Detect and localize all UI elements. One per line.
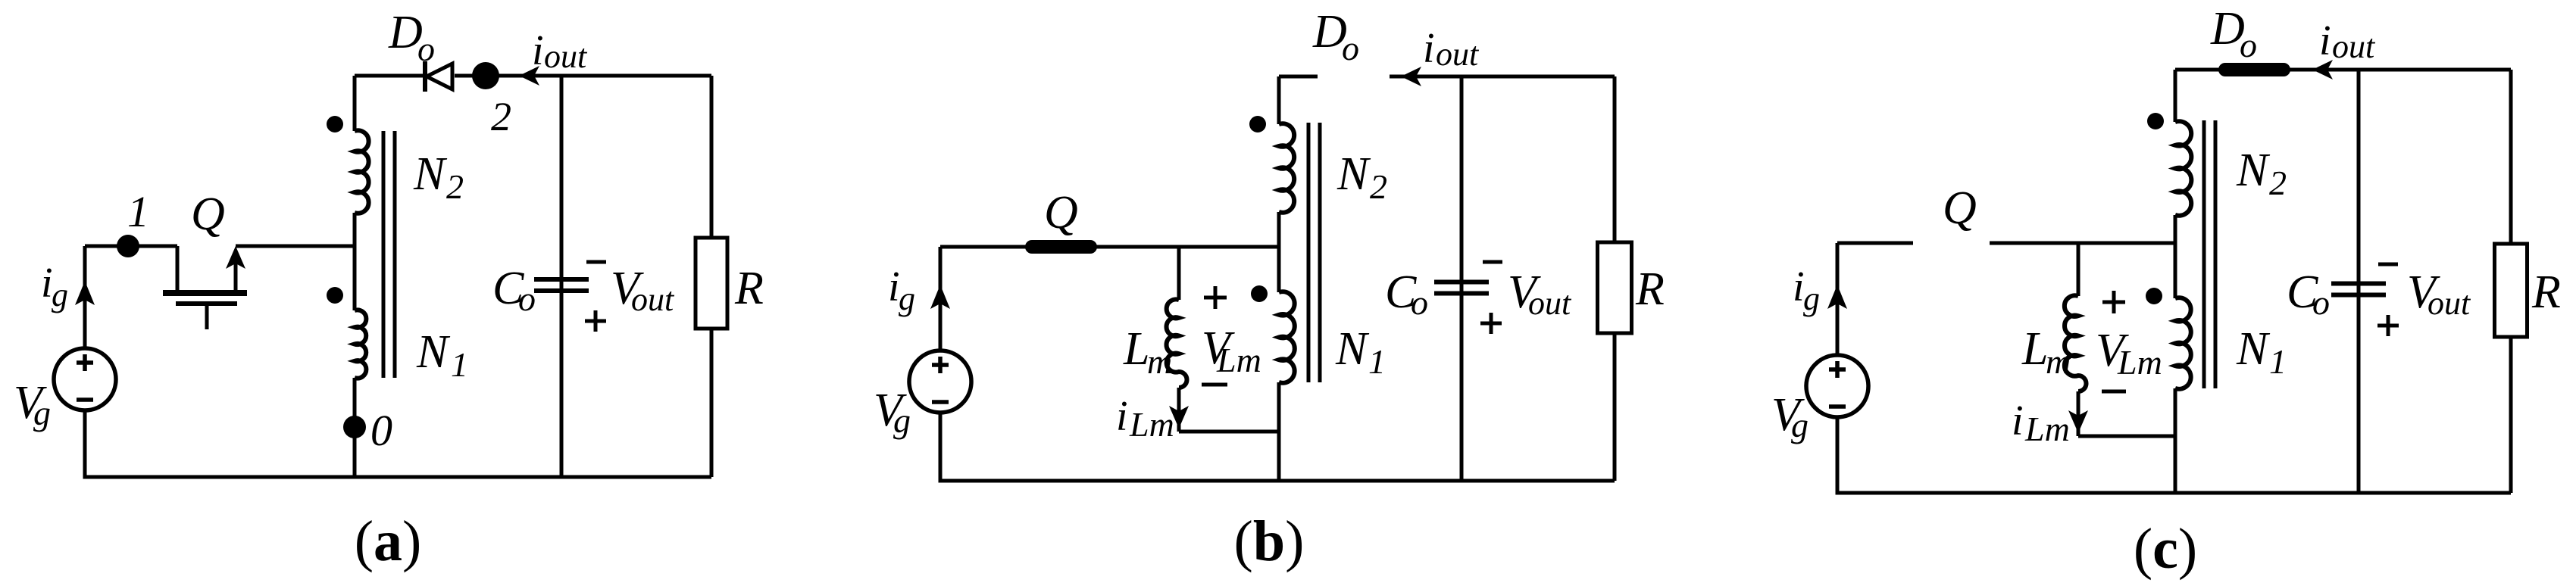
svg-text:out: out: [1436, 36, 1480, 73]
svg-text:i: i: [2319, 17, 2331, 64]
svg-text:i: i: [2012, 397, 2024, 444]
svg-text:R: R: [734, 263, 764, 314]
svg-text:1: 1: [2269, 342, 2287, 381]
svg-text:N: N: [413, 148, 448, 200]
svg-text:out: out: [544, 38, 588, 75]
svg-text:R: R: [2531, 267, 2561, 318]
svg-text:Lm: Lm: [2024, 410, 2070, 448]
svg-text:out: out: [631, 281, 675, 318]
svg-text:L: L: [2021, 323, 2048, 375]
svg-text:g: g: [893, 401, 911, 440]
svg-text:Q: Q: [1943, 182, 1977, 234]
svg-text:out: out: [2428, 285, 2471, 322]
svg-text:o: o: [1411, 283, 1428, 322]
svg-text:g: g: [1803, 280, 1820, 317]
svg-text:i: i: [1116, 393, 1128, 440]
svg-text:o: o: [1342, 29, 1359, 67]
svg-text:o: o: [518, 279, 536, 318]
svg-text:0: 0: [370, 406, 392, 455]
svg-text:2: 2: [2269, 164, 2287, 202]
svg-text:N: N: [2236, 323, 2271, 375]
svg-text:Q: Q: [1044, 187, 1078, 238]
svg-text:N: N: [2236, 145, 2271, 196]
svg-text:2: 2: [491, 94, 511, 139]
svg-text:o: o: [2240, 26, 2257, 64]
svg-text:i: i: [532, 27, 544, 74]
svg-text:L: L: [1123, 323, 1149, 375]
svg-text:2: 2: [1370, 167, 1387, 206]
svg-text:N: N: [1336, 148, 1371, 200]
svg-text:(a): (a): [355, 510, 422, 573]
svg-text:(b): (b): [1234, 510, 1305, 573]
svg-text:o: o: [417, 30, 435, 68]
svg-text:m: m: [2046, 342, 2071, 381]
svg-text:Lm: Lm: [1216, 341, 1261, 379]
svg-text:out: out: [2332, 28, 2376, 65]
svg-text:R: R: [1635, 263, 1665, 315]
svg-text:Q: Q: [191, 189, 225, 240]
svg-text:i: i: [1423, 25, 1435, 72]
svg-text:g: g: [33, 394, 51, 432]
svg-text:1: 1: [451, 345, 468, 384]
svg-text:Lm: Lm: [2117, 343, 2162, 382]
svg-text:out: out: [1528, 285, 1572, 322]
svg-text:g: g: [899, 280, 915, 317]
svg-text:2: 2: [446, 167, 464, 206]
svg-text:o: o: [2312, 283, 2330, 322]
svg-text:g: g: [1791, 406, 1809, 444]
svg-text:Lm: Lm: [1129, 405, 1174, 444]
svg-text:N: N: [416, 326, 451, 378]
svg-text:N: N: [1335, 323, 1370, 375]
svg-text:(c): (c): [2134, 517, 2197, 581]
svg-text:m: m: [1147, 342, 1172, 381]
svg-text:1: 1: [1368, 342, 1386, 381]
svg-text:g: g: [52, 276, 68, 313]
svg-text:1: 1: [127, 187, 149, 236]
